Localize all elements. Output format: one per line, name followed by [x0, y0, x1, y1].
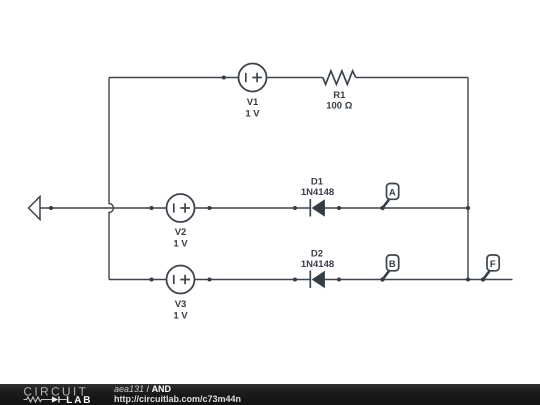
- wire right vertical: [467, 78, 469, 280]
- diode D1: [310, 199, 324, 217]
- wire middle row V2 to D1: [195, 207, 311, 209]
- svg-text:1 V: 1 V: [245, 109, 260, 120]
- node dot mid after arrow: [49, 206, 53, 210]
- voltage source V2: [167, 194, 195, 222]
- wire bottom row left: [109, 279, 167, 281]
- node dot bottom before V3: [149, 277, 153, 281]
- node dot mid right junction: [466, 206, 470, 210]
- flag F: [483, 255, 499, 280]
- wire bottom row D2 to end: [325, 279, 513, 281]
- diode D2: [310, 271, 324, 289]
- svg-text:V3: V3: [175, 299, 187, 310]
- svg-text:1N4148: 1N4148: [301, 259, 334, 270]
- flag A: [383, 184, 399, 209]
- footer bar: [0, 384, 540, 405]
- wire middle row arrow to V2: [40, 207, 167, 209]
- svg-text:F: F: [490, 259, 496, 270]
- node dot mid before V2: [149, 206, 153, 210]
- wire top row left: [109, 77, 239, 79]
- input arrow (left pointer): [29, 197, 41, 220]
- node dot bottom right junction: [466, 277, 470, 281]
- node dot bottom after V3: [207, 277, 211, 281]
- node dot top before V1: [222, 75, 226, 79]
- CircuitLab logo: [0, 384, 110, 405]
- node dot mid after V2: [207, 206, 211, 210]
- svg-text:V2: V2: [175, 227, 187, 238]
- node dot flag F attach: [481, 277, 485, 281]
- flag B: [383, 255, 399, 280]
- wire middle row D1 to right vertical: [325, 207, 468, 209]
- resistor R1: [323, 71, 356, 84]
- wire top row R1 to right corner: [356, 77, 468, 79]
- node dot flag A attach: [380, 206, 384, 210]
- footer title line: [114, 384, 241, 404]
- wire bottom row V3 to D2: [195, 279, 311, 281]
- node dot flag B attach: [380, 277, 384, 281]
- svg-text:B: B: [389, 259, 396, 270]
- svg-text:A: A: [389, 187, 396, 198]
- node dot bottom before D2: [293, 277, 297, 281]
- node dot bottom after D2: [337, 277, 341, 281]
- voltage source V1: [239, 64, 267, 92]
- svg-text:100 Ω: 100 Ω: [326, 100, 352, 111]
- svg-text:LAB: LAB: [66, 396, 92, 405]
- wire left vertical with hop over middle row: [109, 78, 114, 280]
- node dot mid after D1: [337, 206, 341, 210]
- svg-text:V1: V1: [247, 97, 259, 108]
- svg-text:1 V: 1 V: [173, 310, 188, 321]
- node dot mid before D1: [293, 206, 297, 210]
- svg-text:1N4148: 1N4148: [301, 187, 334, 198]
- svg-text:1 V: 1 V: [173, 239, 188, 250]
- wire top row V1 to R1: [267, 77, 323, 79]
- voltage source V3: [167, 266, 195, 294]
